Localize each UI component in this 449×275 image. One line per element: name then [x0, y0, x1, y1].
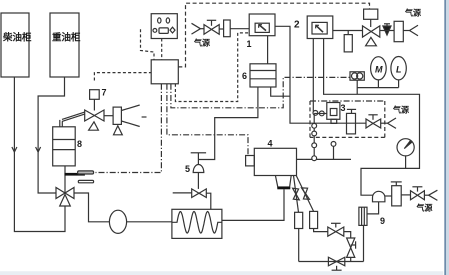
bottom page band — [0, 271, 449, 275]
drip pot D1 — [344, 31, 352, 52]
filter FL1 — [295, 212, 303, 228]
wire filter FL1 down to drain header — [298, 229, 300, 262]
filter FL2 — [310, 211, 318, 228]
check valve line A from furnace — [293, 176, 300, 213]
signal wire valve7 to controller (dashed) — [94, 73, 151, 81]
signal wire stub (dashed) — [141, 29, 155, 60]
solenoid valve S1 — [350, 72, 364, 80]
flow arrow on T1 pipe — [12, 147, 17, 152]
air source arrow A1 — [192, 23, 211, 47]
gauge box 1 — [247, 14, 276, 49]
svg-text:6: 6 — [242, 71, 247, 81]
svg-text:5: 5 — [185, 164, 190, 174]
svg-text:8: 8 — [77, 139, 82, 149]
tank T1 柴油柜 — [1, 13, 32, 77]
svg-text:柴油柜: 柴油柜 — [2, 32, 32, 44]
dashed enclosure 3 — [310, 101, 385, 137]
heater E1 (coil heat exchanger) — [172, 209, 222, 238]
svg-text:气源: 气源 — [416, 203, 433, 213]
controller U1 — [151, 60, 178, 84]
heater rod (black) — [65, 173, 85, 176]
drain valve V10 — [328, 257, 344, 270]
wire valve V8 to vertical valve V9 — [344, 232, 351, 238]
wire solenoid down to duct — [356, 80, 358, 94]
valve V6 (air line 3) — [366, 115, 381, 128]
svg-text:气源: 气源 — [193, 38, 210, 48]
wire filter FL2 to valve V8 — [314, 229, 328, 232]
regulator R1 — [391, 182, 402, 206]
wire box2 left port down to sensor post — [312, 39, 314, 112]
filter F1 (air line 1) — [219, 20, 230, 37]
device 3 (ignition transformer) — [327, 103, 346, 124]
wire valve V1 right to pump P1 — [74, 193, 109, 222]
svg-text:L: L — [396, 65, 402, 75]
right scrollbar edge — [443, 0, 444, 275]
injector N1 (burner gun) — [113, 105, 146, 135]
signal wire panel to controller (dashed) — [161, 39, 163, 60]
air source arrow A4 — [416, 190, 438, 212]
relief device 5 (dome) — [185, 153, 206, 189]
signal wire controller to furnace 4 (dash-dot) — [167, 84, 248, 156]
wire valve V2 to heater top — [206, 193, 211, 209]
svg-text:4: 4 — [268, 139, 273, 149]
wire M-L header — [357, 87, 398, 89]
tank T2 重油柜 — [50, 13, 81, 77]
sensor post A with float circles — [312, 111, 327, 161]
control valve V4 with actuator — [363, 9, 380, 46]
motor M — [371, 57, 387, 88]
pilot dome PD1 — [367, 191, 392, 214]
wire valve V9 to drain header — [350, 257, 352, 261]
wire from component 6 left outlet to device 5 — [198, 87, 258, 160]
control panel PNL — [151, 14, 177, 39]
signal wire controller to actuator V4 (dashed loop) — [178, 3, 369, 67]
pump P1 — [109, 210, 126, 233]
svg-text:2: 2 — [294, 20, 300, 31]
neck pipes on tank 8 — [60, 120, 63, 127]
double supply line to valve V5 — [62, 112, 85, 121]
wire pump P1 to heater E1 — [127, 221, 172, 223]
signal wire controller to gauge box1 (dashed) — [175, 33, 249, 102]
three-way valve V1 (tank selector) — [56, 188, 74, 207]
gauge L — [391, 56, 406, 87]
svg-text:M: M — [375, 65, 383, 75]
lubricator L1 (filled) — [380, 24, 394, 35]
valve V2 (steam inlet) — [192, 189, 207, 198]
svg-text:气源: 气源 — [392, 105, 409, 115]
sight glass SG1 — [347, 109, 357, 133]
check valve line B from furnace — [296, 176, 313, 212]
wire box2 to air control valve — [333, 30, 363, 32]
wire tank T1 outlet down-right-up to valve bottom — [14, 77, 65, 232]
heater rod (gray) — [78, 171, 94, 174]
furnace 4 — [246, 139, 297, 176]
valve V7 (air line 4) — [401, 187, 424, 200]
wire tank T2 outlet down-left-down to valve left — [38, 77, 64, 193]
pressure gauge PG1 — [397, 139, 414, 169]
wire filter F1 to gauge box 1 — [230, 28, 249, 30]
svg-text:7: 7 — [102, 88, 107, 98]
wire valve7 stem — [93, 99, 95, 110]
valve 7 (solenoid box) — [90, 88, 107, 100]
wire valve V1 top to heater tank 8 — [64, 166, 66, 193]
svg-text:气源: 气源 — [404, 8, 421, 18]
vertical valve V9 — [347, 238, 356, 257]
flow arrow on T2 pipe — [36, 147, 41, 152]
wire block 6 right outlet to node line — [271, 87, 290, 96]
wire heater E1 outlet up to burner funnel — [222, 189, 284, 220]
wire furnace 4 flue line right — [297, 158, 352, 160]
wire valve V5 to injector — [104, 115, 113, 117]
sensor post B (circle top) — [331, 142, 336, 160]
drain header wire — [299, 261, 364, 263]
air source arrow A2 — [403, 8, 421, 36]
wire gauge box 1 to block 6 — [267, 36, 269, 64]
heater rod (white) — [78, 180, 93, 182]
steam stub wire — [173, 192, 192, 194]
svg-text:1: 1 — [247, 39, 252, 49]
gauge box 2 — [294, 16, 333, 39]
heater tank 8 — [53, 127, 82, 166]
air source arrow A3 — [381, 105, 409, 129]
economizer 6 (stacked block) — [242, 64, 276, 87]
accumulator 9 — [359, 207, 385, 226]
wire gauge box1 right port down to air header — [275, 26, 366, 123]
valve V3 (air line 1) — [204, 20, 219, 34]
burner funnel under furnace — [275, 176, 291, 190]
svg-text:9: 9 — [380, 216, 385, 226]
wire accumulator 9 to drain header — [363, 225, 365, 261]
filter F2 (air line 2) — [394, 21, 403, 41]
wire box2 right port down and across to burner air duct — [324, 39, 420, 196]
signal wire controller to heater rods (dash-dot) — [96, 84, 162, 173]
valve V8 — [328, 223, 344, 236]
svg-text:3: 3 — [341, 103, 346, 113]
signal wire controller to solenoid (dash-dot) — [171, 77, 350, 107]
svg-text:重油柜: 重油柜 — [52, 32, 81, 44]
three-way valve V5 (burner) — [85, 110, 104, 130]
